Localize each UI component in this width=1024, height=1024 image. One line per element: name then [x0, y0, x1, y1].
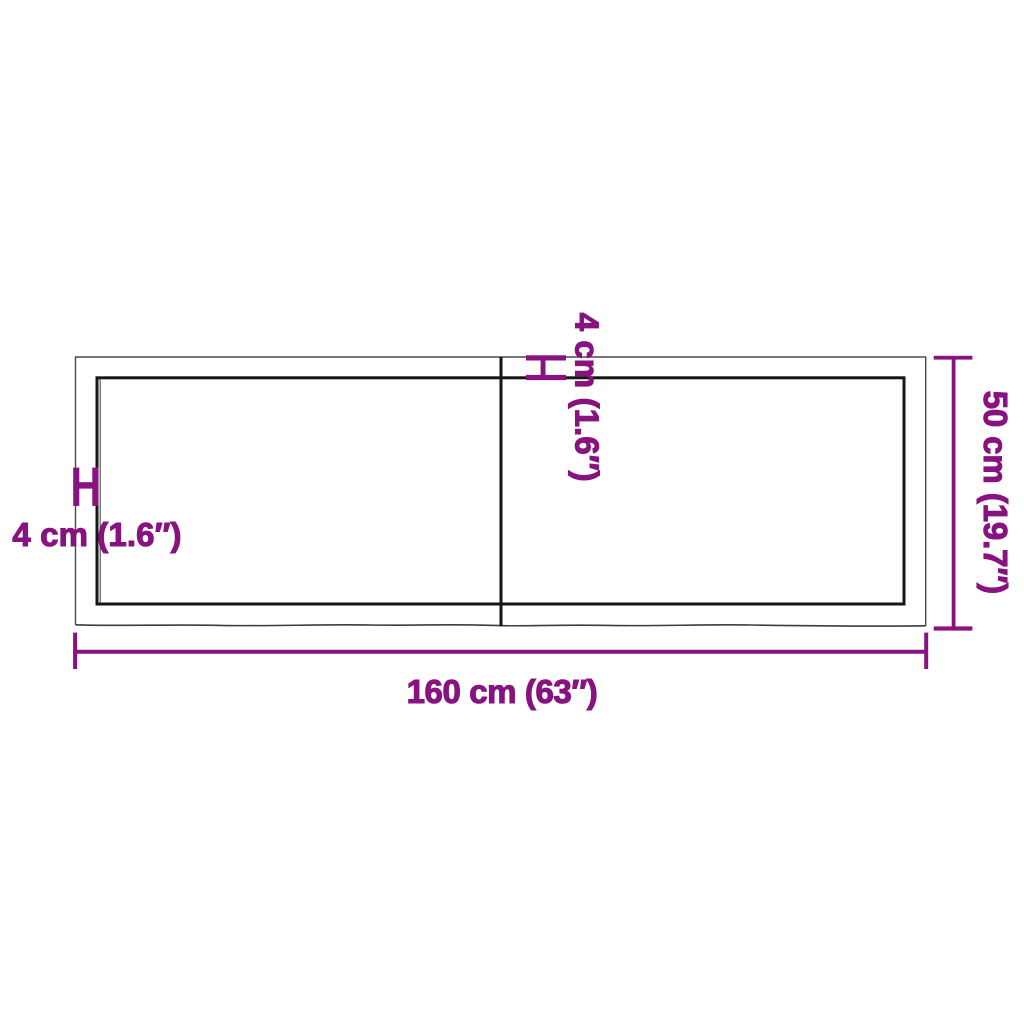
svg-text:50 cm (19.7″): 50 cm (19.7″) [977, 391, 1014, 594]
board outer outline (live edge panel) [76, 357, 926, 626]
svg-text:4 cm (1.6″): 4 cm (1.6″) [569, 313, 606, 482]
top thickness bracket lower bar [526, 375, 566, 380]
bottom dimension left tick [73, 633, 77, 669]
left thickness bracket H crossbar [75, 482, 95, 488]
right dimension line [952, 358, 956, 629]
left thickness bracket H left bar [73, 468, 79, 506]
left thickness bracket H right bar [92, 468, 98, 506]
board middle split line [500, 357, 503, 626]
bottom dimension right tick [924, 633, 928, 669]
top thickness bracket connector [541, 357, 546, 378]
right dimension bottom tick [934, 626, 973, 630]
board live bottom edge (wavy) [76, 625, 926, 626]
right dimension top tick [934, 356, 973, 360]
svg-text:160 cm (63″): 160 cm (63″) [407, 673, 598, 710]
board top face inner rect [97, 378, 904, 604]
top thickness bracket upper bar [526, 355, 566, 360]
board inner grain line left [99, 379, 101, 603]
bottom dimension line [75, 650, 926, 654]
svg-text:4 cm (1.6″): 4 cm (1.6″) [12, 516, 181, 553]
